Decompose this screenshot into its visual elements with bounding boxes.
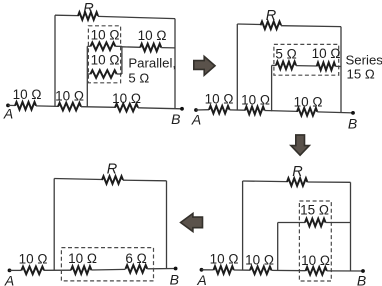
wire: C3 mid seg left	[278, 222, 305, 224]
dashed box: series group (C2)	[274, 44, 339, 75]
svg-text:B: B	[171, 111, 180, 127]
wire: C2 bottom seg 3	[265, 110, 298, 113]
wire: C3 left vertical	[242, 181, 244, 270]
wire: C2 series middle	[296, 65, 317, 67]
wire: C4 bottom seg 2	[44, 269, 71, 271]
svg-text:10 Ω: 10 Ω	[55, 89, 84, 104]
arrow: left (between C3 and C4)	[181, 213, 203, 231]
wire: C1 bottom seg 3	[81, 106, 115, 109]
wire: C2 series lead right	[335, 65, 341, 67]
wire: C3 bottom seg 2	[234, 269, 250, 271]
resistor 5ohm (C2 series)	[276, 62, 296, 70]
dashed box: series group (C4)	[61, 248, 153, 281]
svg-text:A: A	[4, 273, 14, 286]
dashed box: series group (C3)	[299, 201, 331, 281]
node A (C2) dot	[194, 108, 198, 112]
resistor R (C4)	[102, 176, 123, 184]
wire: C2 left vertical	[236, 24, 238, 110]
svg-text:10 Ω: 10 Ω	[68, 251, 97, 266]
resistor 10ohm (C3 bottom #3)	[306, 267, 327, 275]
wire: C1 bottom seg A	[8, 104, 15, 106]
resistor 10ohm (C2 series)	[317, 63, 336, 71]
svg-text:10 Ω: 10 Ω	[112, 91, 141, 106]
wire: C3 bottom seg 3	[271, 269, 305, 271]
wire: C2 top right segment	[281, 25, 341, 28]
wire: C1 parallel top lead right	[115, 45, 122, 47]
svg-text:B: B	[357, 273, 366, 286]
wire: C1 parallel bottom lead left	[87, 73, 90, 75]
resistor 10ohm (C1 parallel bottom)	[91, 70, 117, 78]
node A (C3) dot	[200, 268, 204, 272]
wire: C4 top left segment	[54, 179, 102, 180]
svg-text:A: A	[196, 272, 206, 286]
node B (C1) dot	[180, 107, 184, 111]
wire: C1 right vertical	[174, 19, 176, 109]
resistor 10ohm (C4 in box)	[71, 266, 91, 274]
node B (C4) dot	[174, 267, 178, 271]
resistor 10ohm (C3 bottom #1)	[214, 266, 234, 274]
svg-text:B: B	[170, 272, 179, 286]
resistor 10ohm (C1 bottom #2)	[58, 103, 81, 111]
wire: C1 parallel bottom lead right	[117, 73, 122, 75]
resistor 10ohm (C4 bottom #1)	[21, 267, 44, 275]
resistor R (C3)	[287, 178, 307, 186]
wire: C1 top right segment	[98, 16, 175, 18]
svg-text:Series,: Series,	[346, 53, 382, 68]
svg-text:10 Ω: 10 Ω	[205, 92, 234, 107]
wire: C4 bottom seg A	[10, 269, 22, 271]
wire: C2 bottom seg B	[317, 112, 353, 113]
svg-text:10 Ω: 10 Ω	[138, 28, 167, 43]
wire: C3 right vertical	[350, 182, 352, 271]
svg-text:10 Ω: 10 Ω	[241, 93, 270, 108]
resistor R (C1)	[78, 12, 98, 20]
node B (C2) dot	[351, 111, 355, 115]
svg-text:6 Ω: 6 Ω	[125, 251, 146, 266]
resistor 10ohm (C2 bottom #1)	[209, 106, 230, 114]
wire: C1 parallel left junction vertical	[86, 46, 88, 107]
wire: C1 top left segment	[55, 14, 78, 16]
resistor 10ohm (C1 bottom #3)	[115, 104, 138, 112]
wire: C3 mid seg right	[326, 222, 351, 224]
wire: C1 bottom seg B	[138, 108, 182, 109]
wire: C1 left vertical	[54, 15, 56, 107]
wire: C3 junction vertical	[277, 223, 279, 271]
wire: C4 top right segment	[123, 179, 167, 182]
svg-text:Parallel,: Parallel,	[128, 56, 176, 71]
resistor 10ohm (C3 bottom #2)	[250, 267, 271, 275]
wire: C2 right vertical	[340, 27, 342, 113]
svg-text:10 Ω: 10 Ω	[91, 52, 120, 67]
svg-text:A: A	[191, 112, 201, 128]
svg-text:10 Ω: 10 Ω	[294, 95, 323, 110]
wire: C3 top left segment	[243, 180, 287, 183]
wire: C1 parallel right junction vertical	[121, 46, 123, 74]
arrow: down (between C2 and C3)	[291, 135, 309, 155]
svg-text:10 Ω: 10 Ω	[312, 46, 341, 61]
svg-text:R: R	[83, 1, 94, 17]
svg-text:B: B	[348, 116, 357, 132]
wire: C1 parallel top lead left	[87, 45, 90, 47]
svg-text:5 Ω: 5 Ω	[275, 46, 296, 61]
wire: C3 bottom seg B	[327, 270, 363, 272]
dashed box: parallel group (C1)	[88, 26, 120, 83]
wire: C4 left vertical	[53, 179, 55, 271]
resistor R (C2)	[261, 22, 282, 30]
node A (C1) dot	[6, 104, 10, 108]
wire: C1 mid seg to right vertical	[161, 47, 175, 49]
wire: C2 series lead left	[272, 64, 276, 66]
wire: C2 series junction vertical	[271, 65, 273, 111]
resistor 10ohm (C2 bottom #3)	[297, 108, 317, 116]
svg-text:15 Ω: 15 Ω	[347, 67, 375, 82]
svg-text:R: R	[266, 8, 277, 24]
wire: C2 bottom seg 2	[230, 109, 246, 111]
wire: C3 top right segment	[307, 181, 350, 183]
svg-text:15 Ω: 15 Ω	[300, 203, 329, 218]
svg-text:5 Ω: 5 Ω	[128, 71, 149, 86]
resistor 6ohm (C4 in box)	[126, 265, 148, 273]
svg-text:10 Ω: 10 Ω	[13, 87, 42, 102]
wire: C4 bottom seg 3	[91, 268, 125, 271]
wire: C1 mid seg to right 10ohm	[122, 46, 140, 49]
svg-text:A: A	[3, 106, 13, 122]
resistor 10ohm (C1 bottom #1)	[15, 102, 36, 110]
svg-text:10 Ω: 10 Ω	[19, 252, 48, 267]
wire: C4 right vertical	[166, 181, 168, 269]
resistor 15ohm (C3)	[305, 219, 326, 227]
resistor 10ohm (C2 bottom #2)	[245, 107, 265, 115]
resistor 10ohm (C1 mid right)	[140, 44, 161, 52]
node B (C3) dot	[361, 269, 365, 273]
node A (C4) dot	[8, 269, 12, 273]
svg-text:10 Ω: 10 Ω	[301, 253, 330, 268]
wire: C2 top left segment	[237, 23, 260, 26]
resistor 10ohm (C1 parallel top)	[91, 43, 116, 51]
svg-text:10 Ω: 10 Ω	[91, 27, 120, 42]
svg-text:R: R	[107, 162, 118, 178]
svg-text:10 Ω: 10 Ω	[245, 253, 274, 268]
svg-text:10 Ω: 10 Ω	[210, 252, 239, 267]
wire: C2 bottom seg A	[196, 109, 209, 111]
arrow: right (between C1 and C2)	[194, 56, 215, 75]
wire: C1 bottom seg 2	[36, 105, 58, 108]
svg-text:R: R	[292, 164, 303, 180]
wire: C3 bottom seg A	[202, 269, 214, 271]
wire: C4 bottom seg B	[147, 268, 175, 270]
